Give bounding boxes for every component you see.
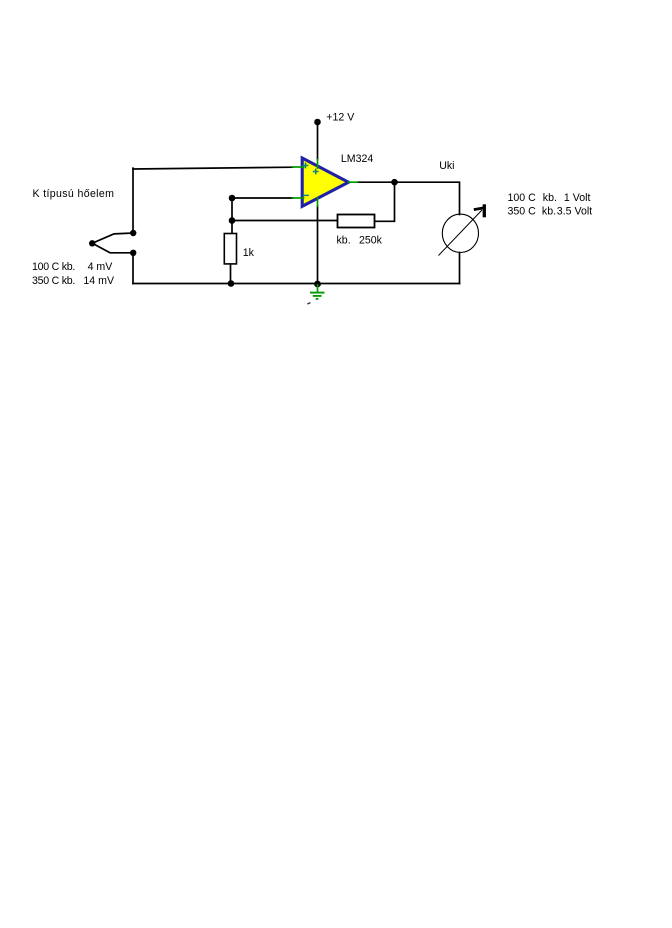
svg-text:4 mV: 4 mV <box>88 261 114 273</box>
svg-text:kb.: kb. <box>542 205 556 217</box>
svg-text:350 C kb.: 350 C kb. <box>32 275 75 287</box>
svg-text:LM324: LM324 <box>341 153 373 165</box>
svg-text:kb.: kb. <box>337 235 351 247</box>
svg-text:250k: 250k <box>359 235 383 247</box>
svg-text:1k: 1k <box>243 247 255 259</box>
svg-text:100 C kb.: 100 C kb. <box>32 261 75 273</box>
svg-text:K típusú hőelem: K típusú hőelem <box>33 188 115 200</box>
svg-text:350 C: 350 C <box>508 205 537 217</box>
svg-text:100 C: 100 C <box>508 192 537 204</box>
svg-text:1 Volt: 1 Volt <box>564 192 591 204</box>
svg-text:Uki: Uki <box>439 160 454 172</box>
svg-text:+12 V: +12 V <box>326 111 355 123</box>
svg-text:14 mV: 14 mV <box>83 275 115 287</box>
svg-text:kb.: kb. <box>543 192 557 204</box>
svg-text:3.5 Volt: 3.5 Volt <box>557 205 592 217</box>
